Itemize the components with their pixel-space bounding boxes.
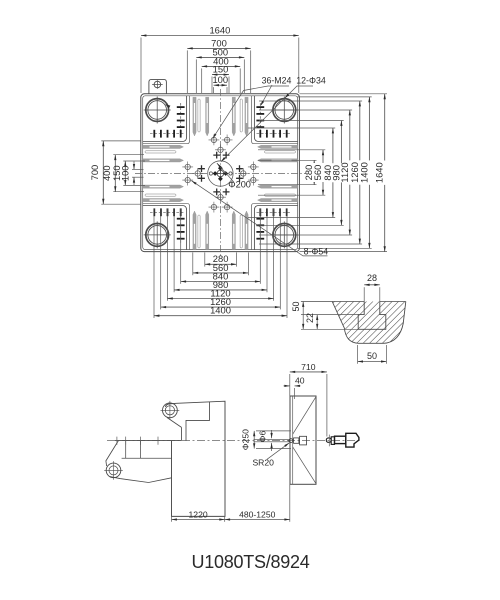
barrel head (346, 433, 359, 447)
vertical centerline (220, 89, 222, 258)
platen hole diagonals (293, 397, 316, 434)
detail top surface line (301, 301, 364, 303)
dimension 100 left (133, 162, 135, 170)
dimension 400 left (114, 155, 116, 192)
ejector rod bar (254, 439, 288, 441)
leader 36-M24 second (261, 85, 272, 105)
svg-text:1640: 1640 (374, 162, 385, 183)
dia34 hole 2 (182, 175, 193, 186)
ejector housing inner lines (122, 441, 172, 459)
platen plate inner outline (143, 96, 298, 250)
dimension 40 (294, 388, 296, 399)
dia34 hole 6 (238, 168, 249, 179)
fixed platen side view (290, 396, 316, 484)
T-slots left arm (143, 145, 183, 201)
dimension 840 bottom (181, 281, 261, 283)
tie bar hole top-left (144, 97, 171, 124)
moving platen steps (115, 402, 210, 441)
svg-text:Φ6: Φ6 (257, 431, 267, 443)
dia34 hole 5 (248, 175, 259, 186)
svg-text:50: 50 (367, 351, 377, 361)
dimension 280 bottom (205, 263, 237, 265)
dia34 hole 1 (182, 162, 193, 173)
M24 holes row bottom-left (150, 208, 185, 216)
ear hole (152, 80, 163, 89)
svg-text:12-Φ34: 12-Φ34 (296, 76, 326, 86)
svg-text:28: 28 (367, 273, 377, 283)
dimension 560 bottom (193, 272, 249, 274)
dimension 980 bottom (174, 289, 267, 291)
dimension 100 top (214, 84, 227, 86)
dimension 700 top (187, 47, 250, 49)
center hole (214, 167, 227, 180)
M24 holes column bottom-left (177, 210, 185, 244)
svg-text:40: 40 (295, 376, 305, 386)
moving platen assembly outline (166, 401, 226, 516)
dimension 1220 (171, 517, 173, 522)
svg-text:1400: 1400 (210, 305, 231, 316)
tie bar hole bottom-right (271, 221, 298, 248)
svg-text:100: 100 (120, 165, 131, 181)
lifting eye bottom (104, 461, 123, 480)
dimension 840 right (332, 128, 334, 218)
dimension 22 detail left (316, 315, 318, 330)
horizontal centerline (135, 173, 306, 175)
svg-text:22: 22 (305, 313, 315, 323)
svg-text:8-Φ54: 8-Φ54 (304, 247, 329, 257)
tie bar hole top-right (271, 97, 298, 124)
mold face tick marks (116, 437, 118, 445)
svg-text:36-M24: 36-M24 (262, 76, 292, 86)
dimension 710 (289, 374, 291, 396)
mounting ear top-left (149, 79, 167, 93)
nozzle retracted tip (326, 438, 331, 442)
M24 holes column top-right (256, 103, 264, 137)
dimension 1640 top (141, 35, 299, 37)
dimension 28 detail (364, 284, 380, 286)
dia34 hole 11 (222, 202, 233, 213)
svg-text:710: 710 (301, 362, 316, 372)
T-slots right arm (258, 145, 298, 201)
bracket lines under eye (167, 418, 182, 428)
small tapped marks near center (198, 165, 205, 172)
svg-text:700: 700 (89, 165, 100, 181)
svg-text:150: 150 (213, 64, 229, 75)
platen plate outer outline (141, 94, 300, 252)
small circles on dia200 (209, 172, 212, 175)
svg-text:100: 100 (212, 74, 228, 85)
nozzle retracted neck (331, 437, 334, 445)
leader dia200 (217, 163, 234, 182)
nozzle tip at platen (289, 439, 293, 443)
dia34 hole 12 (215, 192, 226, 203)
M24 holes column bottom-right (256, 210, 264, 244)
svg-text:1220: 1220 (189, 509, 208, 519)
svg-text:1640: 1640 (209, 24, 230, 35)
dimension 1120 bottom (167, 298, 273, 300)
dimension 50 detail bottom (358, 361, 387, 363)
nozzle retracted barrel (335, 436, 346, 443)
dimension 400 top (202, 65, 241, 67)
dimension 150 top (212, 74, 229, 76)
detail section outline (332, 302, 406, 344)
dimension 1260 right (359, 101, 361, 244)
dimension dia250 (256, 430, 291, 432)
dia34 hole 10 (209, 202, 220, 213)
dimension 1260 bottom (161, 306, 281, 308)
svg-text:1400: 1400 (358, 162, 369, 183)
dimension 980 right (340, 121, 342, 226)
detail extension lines (363, 287, 365, 301)
center locating circle dia200 (208, 161, 233, 186)
dia34 hole 7 (209, 135, 220, 146)
ejector housing outline (106, 441, 172, 483)
M24 holes row top-left (150, 130, 185, 138)
dimension 150 left (124, 161, 126, 185)
dimension 700 left (102, 141, 104, 204)
dia34 hole 8 (222, 135, 233, 146)
leader SR20 (267, 443, 289, 460)
svg-text:SR20: SR20 (252, 458, 274, 468)
svg-text:Φ250: Φ250 (241, 429, 251, 450)
tie bar hole bottom-left (144, 221, 171, 248)
M24 holes row bottom-right (257, 208, 292, 216)
svg-text:480-1250: 480-1250 (239, 509, 276, 519)
leader 8-dia54 (192, 181, 328, 256)
dimension 50 detail left (302, 302, 304, 330)
dia34 hole 3 (192, 168, 203, 179)
nozzle body forward (294, 438, 299, 443)
leader 36-M24 (213, 86, 289, 139)
dimension 1120 right (349, 110, 351, 235)
dimension 500 top (196, 56, 244, 58)
dimension 480-1250 (289, 484, 291, 522)
left extension lines (101, 140, 141, 142)
svg-text:50: 50 (291, 301, 301, 311)
top extension lines (140, 38, 142, 94)
arrow mark on top-left tie bar hole (164, 103, 170, 108)
cross step inner line (143, 96, 298, 250)
dia34 hole 9 (215, 144, 226, 155)
M24 holes row top-right (257, 130, 292, 138)
cross step outline (143, 96, 298, 250)
T-slots bottom arm (193, 211, 248, 250)
dimension 1640 right (384, 94, 386, 252)
right extension lines (258, 159, 317, 161)
dimension 280 right (313, 160, 315, 184)
dimension 1400 right (368, 97, 370, 248)
leader 12-dia34 (221, 86, 313, 162)
T-slots top arm (193, 97, 248, 136)
M24 holes column top-left (177, 103, 185, 137)
detail T-slot outline (358, 302, 386, 330)
dimension 1400 bottom (154, 315, 287, 317)
dimension dia6 (271, 430, 273, 438)
center diamond marks (213, 171, 218, 176)
injection axis centerline (107, 440, 361, 442)
dimension 560 right (322, 150, 324, 195)
lifting eye top (161, 401, 180, 420)
bottom extension lines (204, 252, 206, 266)
svg-text:U1080TS/8924: U1080TS/8924 (191, 552, 309, 572)
dia34 hole 4 (248, 162, 259, 173)
svg-text:Φ200: Φ200 (228, 179, 251, 189)
